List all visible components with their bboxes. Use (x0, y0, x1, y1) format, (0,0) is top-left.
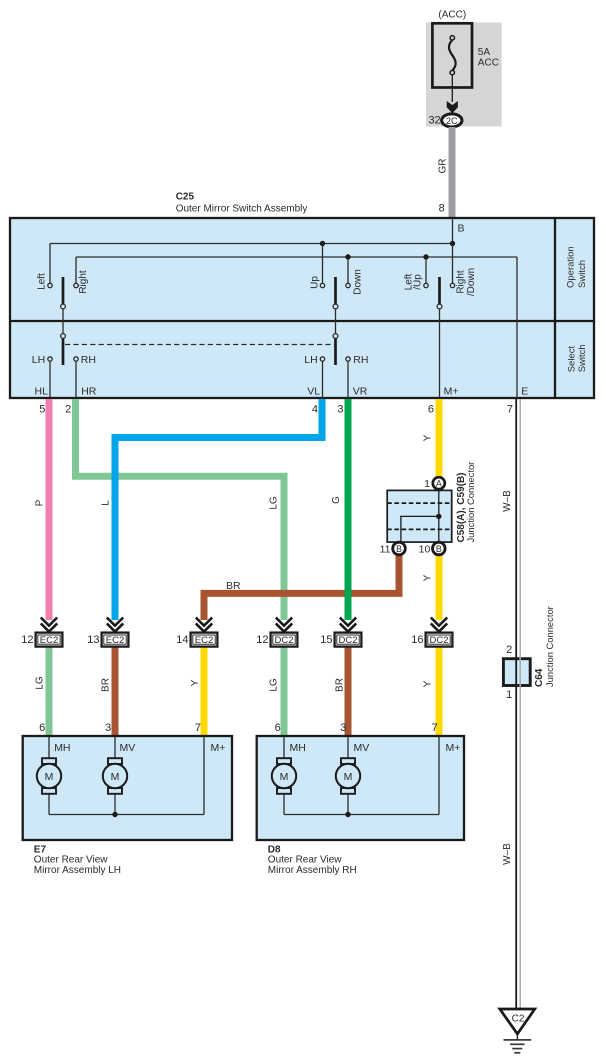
wire LG EC2-12 to E7 (46, 647, 53, 736)
svg-text:M: M (344, 771, 353, 783)
wire VL stub (322, 361, 324, 398)
C25 outer mirror switch assembly box (10, 218, 594, 398)
fuse box outline (432, 23, 472, 87)
junction dot Down (345, 254, 350, 259)
svg-text:7: 7 (432, 722, 438, 734)
svg-text:7: 7 (195, 722, 201, 734)
switch lever Right/Down-M+ (438, 277, 441, 304)
E7 wire MH stub (48, 736, 50, 758)
svg-text:RH: RH (81, 354, 96, 366)
junction dot B (450, 241, 455, 246)
D8 wire MV stub (347, 736, 349, 758)
select lever mid (334, 338, 337, 365)
junction dot Up (320, 241, 325, 246)
svg-text:W–B: W–B (502, 490, 513, 512)
svg-text:1: 1 (506, 689, 512, 701)
ground stem (516, 1032, 518, 1040)
contact Up (320, 283, 324, 287)
svg-text:M: M (45, 771, 54, 783)
svg-text:5: 5 (39, 404, 45, 416)
svg-text:Operation: Operation (566, 246, 577, 288)
wire LG DC2-12 to D8 (281, 647, 288, 736)
motor E7-MV brush top (108, 758, 122, 764)
ground connector C2 triangle (500, 1009, 535, 1034)
svg-text:Mirror Assembly LH: Mirror Assembly LH (34, 865, 121, 876)
mechanical link dashed (65, 344, 334, 346)
E7 bus junction dot (112, 812, 117, 817)
svg-text:Y: Y (423, 434, 434, 441)
svg-text:3: 3 (340, 722, 346, 734)
select lever left (62, 338, 65, 365)
motor E7-MH brush top (42, 758, 56, 764)
fuse 5A ACC symbol (449, 36, 456, 75)
connector shield DC2 pin 12 chevron (276, 618, 292, 632)
svg-text:Y: Y (423, 680, 434, 687)
wire BR DC2-15 to D8 (345, 647, 352, 736)
svg-text:6: 6 (275, 722, 281, 734)
junction internal wire A to B10 (438, 490, 440, 542)
motor D8-MV brush top (341, 758, 355, 764)
D8 wire motor2 to bus (347, 794, 349, 815)
motor E7-MH brush bottom (42, 788, 56, 794)
svg-text:11: 11 (380, 543, 391, 555)
wire HR stub (75, 361, 77, 398)
select node left (61, 334, 66, 339)
svg-text:12: 12 (21, 634, 33, 646)
wire Y from junction B10 to DC2-16 (436, 555, 443, 621)
wire VR stub (347, 361, 349, 398)
C64 title (534, 606, 555, 687)
wire G green from VR to DC2-15 (345, 399, 352, 620)
svg-text:MH: MH (54, 742, 70, 754)
svg-text:Right: Right (78, 270, 89, 294)
junction internal wire to B11 (401, 516, 439, 542)
svg-text:MH: MH (290, 742, 306, 754)
svg-text:VL: VL (307, 385, 320, 397)
terminal B10 circle (433, 542, 446, 555)
svg-text:/Down: /Down (466, 268, 477, 296)
svg-text:P: P (35, 499, 46, 506)
svg-text:BR: BR (226, 580, 241, 592)
arrowhead (447, 101, 458, 113)
label Left/Up (404, 273, 424, 290)
svg-text:2: 2 (65, 404, 71, 416)
motor E7-MH body (37, 764, 61, 788)
svg-text:Up: Up (309, 276, 320, 289)
wire Y from M+ to junction A (436, 399, 443, 477)
svg-text:Outer Mirror Switch Assembly: Outer Mirror Switch Assembly (176, 204, 308, 215)
E7 wire M+ riser (203, 736, 205, 815)
contact Right/Down (450, 283, 454, 287)
contact Down (346, 283, 350, 287)
bus line 2 (E return) (76, 256, 517, 258)
motor D8-MV body (336, 764, 360, 788)
svg-text:32: 32 (428, 115, 440, 127)
E7 mirror assembly box (23, 736, 232, 840)
wire W-B black line (515, 399, 517, 1009)
svg-text:M+: M+ (446, 742, 461, 754)
svg-text:EC2: EC2 (106, 635, 124, 646)
wire M+ column (439, 309, 441, 398)
fuse block gray background (426, 23, 502, 127)
contact Left/Up (424, 283, 428, 287)
wire Up riser (322, 244, 324, 284)
svg-text:M+: M+ (444, 385, 459, 397)
connector shield EC2 pin 13 chevron (107, 618, 123, 632)
svg-text:M+: M+ (211, 742, 226, 754)
svg-text:C2: C2 (512, 1013, 525, 1024)
contact RH left (74, 357, 78, 361)
svg-text:8: 8 (439, 203, 445, 215)
svg-text:Left: Left (36, 273, 47, 290)
svg-text:10: 10 (419, 543, 431, 555)
contact Right (74, 283, 78, 287)
svg-text:6: 6 (39, 722, 45, 734)
svg-text:DC2: DC2 (429, 635, 448, 646)
svg-text:12: 12 (256, 634, 268, 646)
svg-text:E: E (521, 385, 528, 397)
terminal A circle (433, 477, 445, 489)
ground hatch 3 (512, 1048, 522, 1050)
svg-text:B: B (396, 544, 402, 554)
connector shield EC2 pin 13 box (87, 633, 128, 647)
connector shield EC2 pin 14 chevron (196, 618, 212, 632)
E7 bus wire (49, 814, 204, 816)
wire Right riser (75, 257, 77, 283)
wire E riser (516, 257, 518, 398)
svg-text:DC2: DC2 (338, 635, 357, 646)
contact LH left (48, 357, 52, 361)
connector oval 2C (442, 114, 462, 127)
switch node Right/Down-M+ (437, 304, 442, 309)
wire LG from HR to DC2-12 (76, 399, 285, 620)
motor E7-MV brush bottom (108, 788, 122, 794)
contact LH mid (320, 357, 324, 361)
svg-text:16: 16 (411, 634, 423, 646)
terminal B11 circle (393, 542, 406, 555)
svg-text:Y: Y (190, 679, 201, 686)
connector shield DC2 pin 12 box (256, 633, 297, 647)
svg-text:LH: LH (304, 354, 317, 366)
connector shield EC2 pin 12 box (21, 633, 62, 647)
C25 component title (176, 191, 308, 214)
svg-text:/Up: /Up (412, 274, 423, 290)
D8 mirror assembly box (257, 736, 464, 840)
D8 title (268, 844, 357, 876)
svg-text:A: A (436, 479, 442, 489)
motor D8-MV brush bottom (341, 788, 355, 794)
wire BR EC2-13 to E7 (112, 647, 119, 736)
wire Left riser (49, 244, 51, 284)
svg-text:4: 4 (312, 404, 318, 416)
svg-text:13: 13 (87, 634, 99, 646)
D8 bus wire (284, 814, 439, 816)
junction connector dashed row 2 (387, 528, 452, 530)
contact RH mid (346, 357, 350, 361)
wire GR vertical (449, 127, 456, 218)
svg-text:LG: LG (268, 678, 279, 692)
svg-text:MV: MV (120, 742, 136, 754)
junction connector C58(A) C59(B) box (387, 490, 452, 542)
switch node Up/Down (333, 304, 338, 309)
wire Y DC2-16 to D8 (436, 647, 443, 736)
switch lever Left/Right (62, 277, 65, 304)
wire HL stub (49, 361, 51, 398)
junction internal dot (436, 514, 441, 519)
svg-text:15: 15 (320, 634, 332, 646)
svg-text:Switch: Switch (577, 260, 588, 288)
svg-text:VR: VR (353, 385, 368, 397)
svg-text:G: G (331, 496, 342, 504)
motor E7-MV body (103, 764, 127, 788)
junction dot Left/Up (423, 254, 428, 259)
wire lever2 to select (335, 309, 337, 334)
svg-text:M: M (111, 771, 120, 783)
svg-text:7: 7 (507, 404, 513, 416)
label Operation Switch (566, 246, 589, 288)
svg-text:Junction Connector: Junction Connector (465, 462, 476, 543)
svg-text:L: L (100, 500, 111, 506)
wire Left/Up riser (425, 257, 427, 283)
svg-text:3: 3 (337, 404, 343, 416)
wire BR from junction B11 to EC2-14 (204, 555, 399, 621)
contact Left (48, 283, 52, 287)
svg-text:EC2: EC2 (195, 635, 213, 646)
svg-text:Junction Connector: Junction Connector (544, 606, 555, 687)
svg-text:B: B (436, 544, 442, 554)
svg-text:MV: MV (354, 742, 370, 754)
wire L blue from VL to EC2-13 (115, 399, 322, 620)
svg-text:6: 6 (428, 404, 434, 416)
svg-text:BR: BR (334, 678, 345, 692)
wire P pink from HL to EC2-12 (46, 399, 53, 620)
switch lever Up/Down (334, 277, 337, 304)
label Select Switch (567, 344, 588, 372)
svg-text:DC2: DC2 (274, 635, 293, 646)
svg-text:3: 3 (105, 722, 111, 734)
E7 wire motor2 to bus (114, 794, 116, 815)
wire Y EC2-14 to E7 (201, 647, 208, 736)
svg-text:HL: HL (35, 385, 49, 397)
D8 wire motor1 to bus (283, 794, 285, 815)
svg-text:M: M (280, 771, 289, 783)
svg-text:2: 2 (506, 644, 512, 656)
C25 divider vertical (554, 218, 556, 398)
connector shield EC2 pin 14 box (176, 633, 217, 647)
svg-text:B: B (458, 223, 465, 235)
svg-text:C25: C25 (176, 191, 195, 202)
svg-text:W–B: W–B (502, 843, 513, 865)
connector shield DC2 pin 16 box (411, 633, 452, 647)
svg-text:Switch: Switch (577, 344, 588, 372)
ground hatch 1 (504, 1039, 532, 1041)
D8 bus junction dot (345, 812, 350, 817)
motor D8-MH body (272, 764, 296, 788)
svg-text:LG: LG (268, 496, 279, 510)
svg-text:Down: Down (353, 269, 364, 295)
wire B riser (452, 218, 454, 283)
ground hatch 2 (510, 1043, 524, 1045)
bus line 1 (B feed) (50, 243, 453, 245)
motor D8-MH brush bottom (277, 788, 291, 794)
svg-text:RH: RH (353, 354, 368, 366)
E7 wire MV stub (114, 736, 116, 758)
junction connector dashed row 1 (387, 502, 452, 504)
svg-text:1: 1 (424, 478, 430, 490)
svg-text:Right: Right (455, 270, 466, 294)
select node mid (333, 334, 338, 339)
E7 wire motor1 to bus (48, 794, 50, 815)
svg-text:14: 14 (176, 634, 188, 646)
wire lever1 to select (62, 309, 64, 334)
svg-text:(ACC): (ACC) (438, 10, 466, 21)
E7 title (34, 844, 121, 876)
switch node Left/Right (61, 304, 66, 309)
svg-text:LG: LG (35, 676, 46, 690)
svg-text:2C: 2C (446, 116, 458, 126)
svg-text:Mirror Assembly RH: Mirror Assembly RH (268, 865, 357, 876)
fuse rating label 5A ACC (478, 47, 499, 68)
wire Down riser (347, 257, 349, 283)
connector shield EC2 pin 12 chevron (41, 618, 57, 632)
D8 wire M+ riser (438, 736, 440, 815)
svg-text:LH: LH (32, 354, 45, 366)
junction connector C58 C59 title (456, 462, 476, 543)
connector shield DC2 pin 15 box (320, 633, 361, 647)
ground hatch 4 (514, 1052, 520, 1054)
motor D8-MH brush top (277, 758, 291, 764)
wire W-B gray line (519, 399, 521, 1009)
wire from fuse to connector 2C (451, 75, 453, 102)
label Right/Down (455, 268, 477, 296)
C25 divider horizontal (10, 320, 594, 322)
connector shield DC2 pin 15 chevron (340, 618, 356, 632)
svg-text:BR: BR (100, 678, 111, 692)
svg-text:ACC: ACC (478, 57, 499, 68)
svg-text:EC2: EC2 (40, 635, 58, 646)
D8 wire MH stub (283, 736, 285, 758)
svg-text:GR: GR (437, 159, 448, 174)
svg-text:HR: HR (81, 385, 97, 397)
junction connector C64 box (503, 659, 530, 686)
svg-text:Y: Y (423, 574, 434, 581)
connector shield DC2 pin 16 chevron (431, 618, 447, 632)
